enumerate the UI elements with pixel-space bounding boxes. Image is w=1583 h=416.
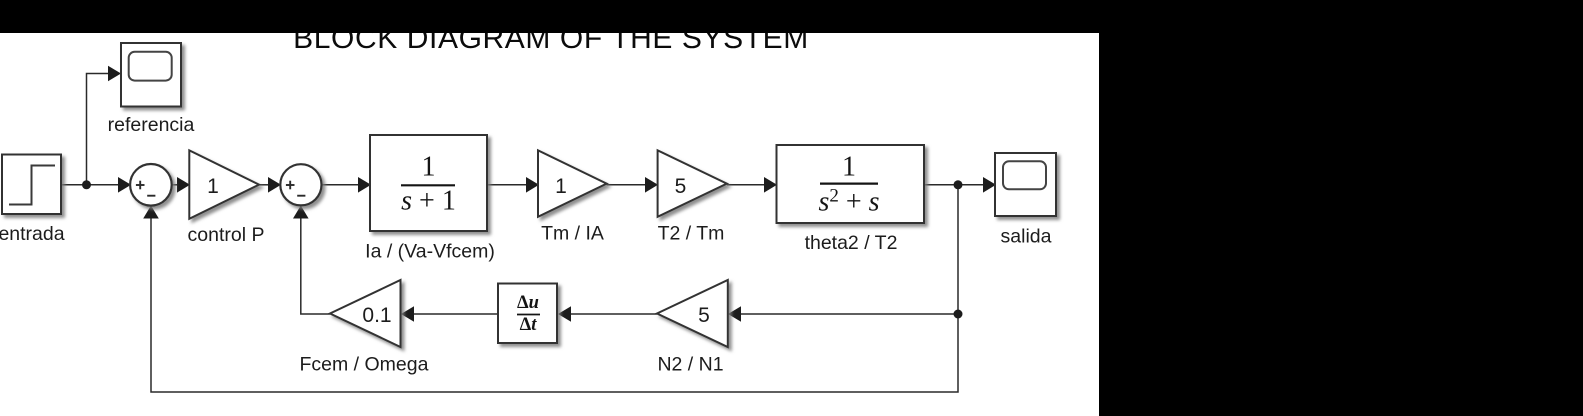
step source block entrada — [2, 155, 61, 215]
scope salida — [995, 153, 1056, 216]
gain T2/Tm — [658, 150, 727, 216]
arrowhead into gain Tm/IA — [526, 177, 539, 193]
arrowhead into sum1 — [118, 177, 131, 193]
junction dot at entrada branch — [82, 180, 91, 189]
gain control P — [189, 150, 259, 218]
svg-text:5: 5 — [698, 304, 710, 327]
svg-text:1: 1 — [422, 152, 436, 183]
wire gain Fcem/Omega to sum2 bottom — [301, 216, 330, 314]
junction dot at feedback tap — [954, 310, 963, 319]
top black bar — [0, 0, 1583, 33]
wire gain control P to sum2 — [259, 184, 270, 186]
arrowhead into TF1 — [358, 177, 371, 193]
wire tap to gain N2/N1 — [739, 313, 958, 315]
arrowhead up into sum1 bottom — [143, 206, 159, 219]
arrowhead into salida — [983, 177, 996, 193]
svg-text:Tm / IA: Tm / IA — [541, 223, 604, 245]
arrowhead into gain T2/Tm — [645, 177, 658, 193]
white canvas background — [0, 33, 1099, 416]
svg-text:entrada: entrada — [0, 223, 65, 245]
arrowhead into referencia — [108, 66, 121, 82]
wire output junction down and tap to gain N2/N1 — [151, 185, 958, 392]
wire du/dt block to gain Fcem/Omega — [412, 313, 498, 315]
svg-text:Fcem / Omega: Fcem / Omega — [300, 354, 429, 376]
svg-text:0.1: 0.1 — [362, 304, 391, 327]
wire junction up to referencia — [87, 74, 111, 185]
arrowhead into gain N2/N1 (leftward) — [728, 306, 741, 322]
svg-text:1: 1 — [207, 175, 219, 198]
junction dot at output branch — [954, 180, 963, 189]
transfer function block theta2/T2: 1/(s^2+s) — [777, 145, 925, 223]
svg-text:1: 1 — [842, 152, 856, 183]
arrowhead into gain Fcem/Omega (leftward) — [401, 306, 414, 322]
right black panel — [1099, 0, 1583, 416]
wire sum2 to TF1 — [321, 184, 360, 186]
svg-text:N2 / N1: N2 / N1 — [657, 354, 723, 376]
svg-text:T2 / Tm: T2 / Tm — [658, 223, 725, 245]
derivative block du/dt — [498, 284, 557, 344]
gain N2/N1 (left-pointing) — [657, 280, 728, 347]
gain Tm/IA — [538, 150, 607, 216]
wire gain N2/N1 to du/dt block — [569, 313, 657, 315]
svg-text:s + 1: s + 1 — [401, 186, 456, 217]
wire TF1 to gain Tm/IA — [487, 184, 528, 186]
wire entrada to sum1 — [61, 184, 119, 186]
arrowhead into sum2 — [268, 177, 281, 193]
svg-text:Ia / (Va-Vfcem): Ia / (Va-Vfcem) — [365, 241, 495, 263]
svg-text:theta2 / T2: theta2 / T2 — [805, 232, 898, 254]
wire gain Tm/IA to gain T2/Tm — [607, 184, 648, 186]
svg-text:referencia: referencia — [108, 114, 195, 136]
wire TF2 to salida with output junction — [924, 184, 985, 186]
svg-text:Δt: Δt — [520, 315, 538, 335]
wire sum1 to gain control P — [172, 184, 180, 186]
svg-text:s2 + s: s2 + s — [818, 186, 879, 218]
wire gain T2/Tm to TF2 — [727, 184, 766, 186]
scope referencia — [121, 43, 181, 107]
sum junction S1 — [130, 164, 172, 206]
arrowhead into gain control P — [177, 177, 190, 193]
sum junction S2 — [280, 164, 321, 205]
arrowhead up into sum2 bottom — [293, 206, 309, 219]
arrowhead into TF2 — [764, 177, 777, 193]
svg-text:1: 1 — [555, 175, 567, 198]
svg-text:Δu: Δu — [517, 293, 539, 313]
transfer function block Ia/(Va-Vfcem): 1/(s+1) — [370, 135, 487, 231]
svg-text:5: 5 — [675, 175, 687, 198]
gain Fcem/Omega (left-pointing) — [330, 280, 401, 347]
svg-text:salida: salida — [1001, 226, 1052, 248]
arrowhead into du/dt block (leftward) — [558, 306, 571, 322]
svg-text:control P: control P — [188, 224, 265, 246]
